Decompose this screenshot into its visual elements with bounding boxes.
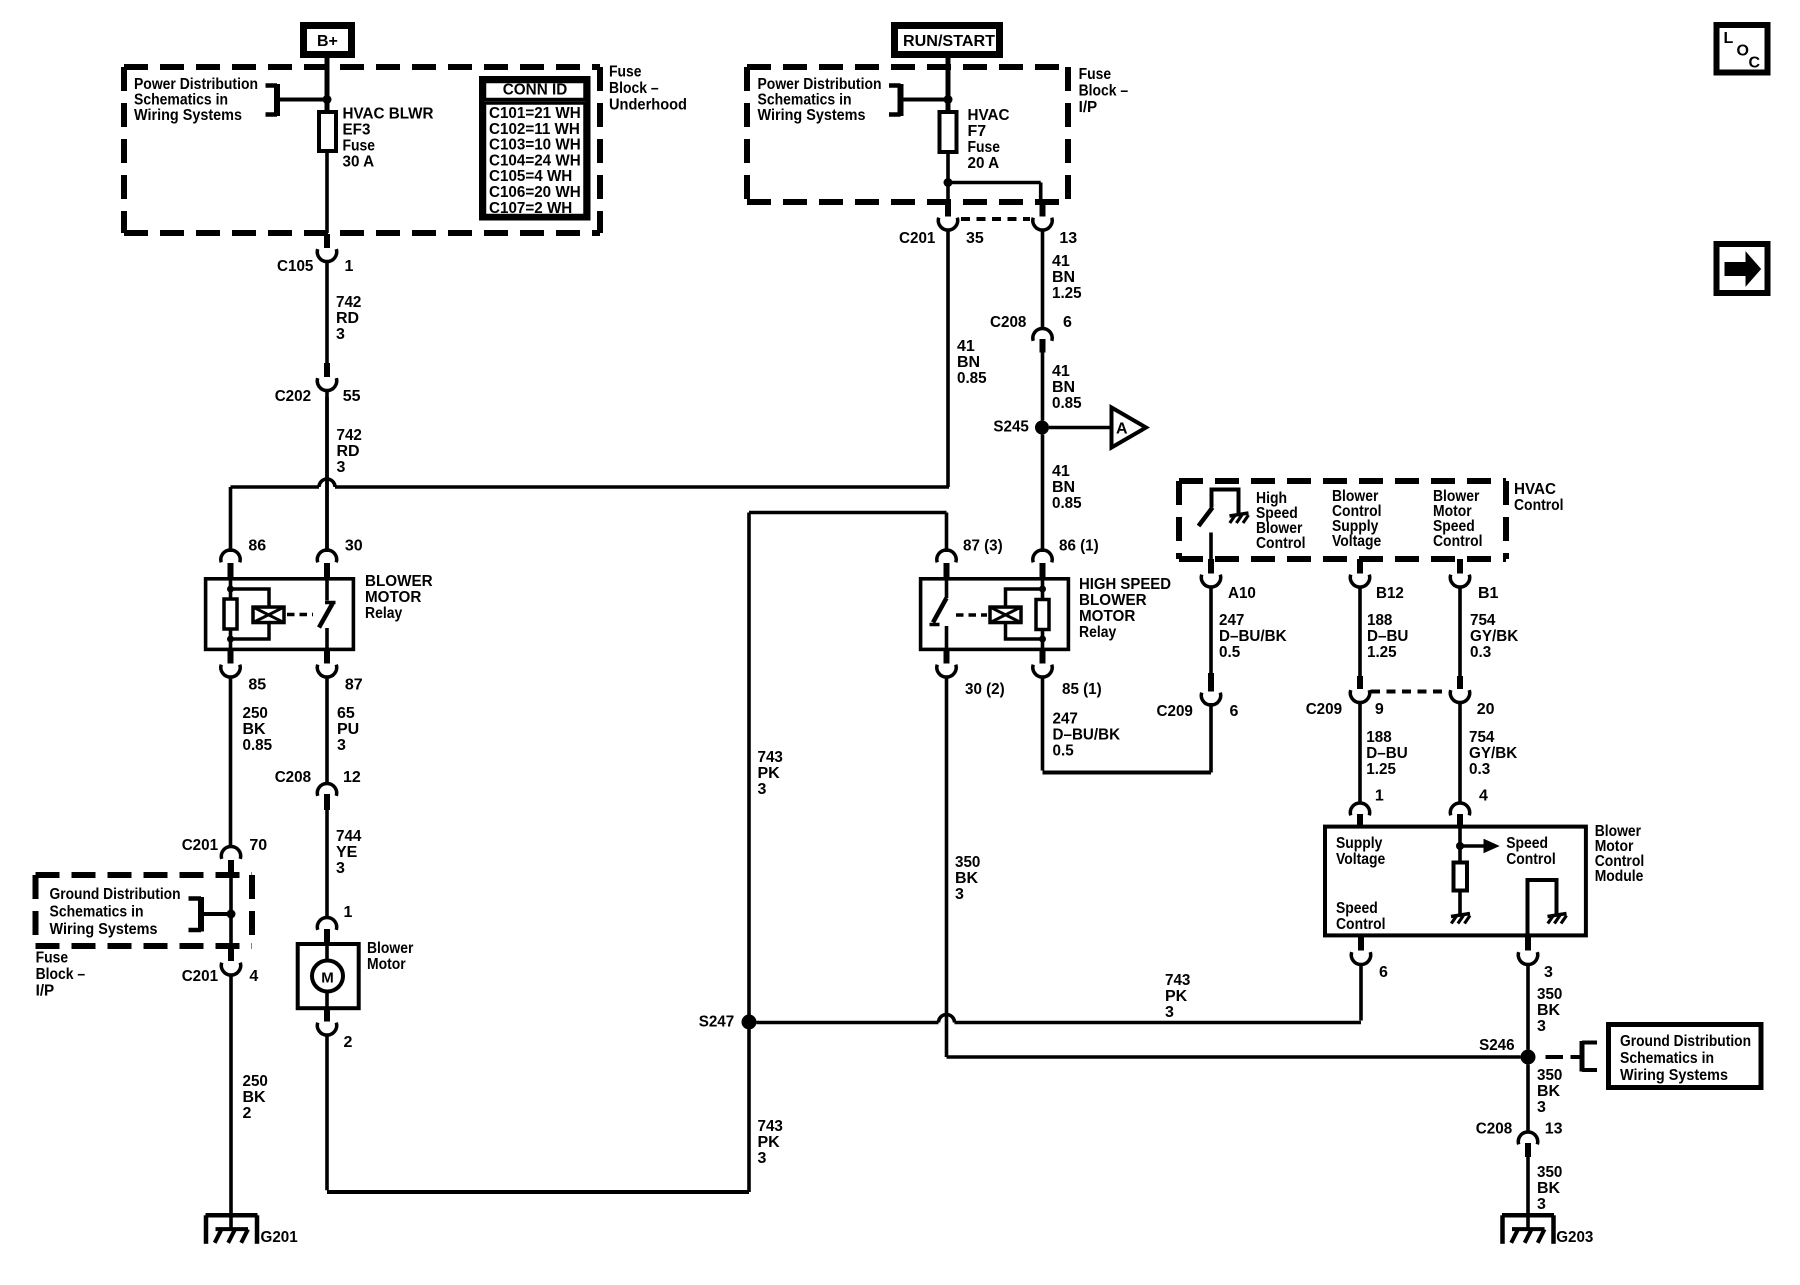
bracket to ground wire xyxy=(198,897,204,932)
wire S246 down xyxy=(1526,1065,1530,1132)
wire A10 to C209-6 xyxy=(1209,588,1213,674)
svg-text:C201: C201 xyxy=(899,230,935,247)
module arrow to Speed Control xyxy=(1460,844,1484,848)
svg-text:C208: C208 xyxy=(990,314,1026,331)
wire 41 BN 0.85 above S245 xyxy=(1041,353,1045,421)
splice S245 xyxy=(1035,421,1049,435)
svg-text:4: 4 xyxy=(249,968,258,985)
svg-text:C209: C209 xyxy=(1157,703,1193,720)
svg-text:CONN ID: CONN ID xyxy=(503,82,568,99)
LOC box xyxy=(1717,25,1768,73)
svg-text:S246: S246 xyxy=(1479,1037,1515,1054)
svg-text:C105: C105 xyxy=(277,258,313,275)
node branch dot below fuse xyxy=(944,178,953,187)
svg-text:C209: C209 xyxy=(1306,701,1342,718)
fuse F7 HVAC 20A xyxy=(940,112,957,152)
svg-text:C202: C202 xyxy=(275,388,311,405)
svg-text:6: 6 xyxy=(1379,964,1388,981)
high speed relay coil branch wires xyxy=(1041,577,1045,600)
ground G201 xyxy=(206,1213,258,1218)
svg-text:1: 1 xyxy=(345,258,354,275)
svg-text:S245: S245 xyxy=(993,419,1029,436)
svg-text:6: 6 xyxy=(1230,703,1239,720)
svg-text:85: 85 xyxy=(248,677,266,694)
wire 754 GY/BK 0.3 to module pin 4 xyxy=(1458,703,1462,803)
ground G203 xyxy=(1502,1213,1554,1218)
connector C209 pin 9 xyxy=(1357,676,1363,689)
wire 65 PU 3 xyxy=(325,678,329,783)
wire 742 RD 3 upper xyxy=(325,262,329,363)
splice S246 xyxy=(1521,1050,1536,1065)
svg-text:55: 55 xyxy=(343,388,361,405)
fuse EF3 HVAC BLWR 30A xyxy=(319,112,336,151)
wire 350 BK 3 to G203 xyxy=(1526,1157,1530,1229)
connector module pin 3 xyxy=(1525,935,1531,951)
dashed connector line C201 xyxy=(961,217,1030,221)
svg-text:13: 13 xyxy=(1059,230,1077,247)
svg-text:BlowerMotorControlModule: BlowerMotorControlModule xyxy=(1595,823,1645,885)
connector B12 xyxy=(1357,559,1363,574)
connector A10 xyxy=(1208,559,1214,574)
wire B1 to C209-20 xyxy=(1458,588,1462,677)
wire 744 YE 3 xyxy=(325,810,329,917)
connector relay pin 85 xyxy=(228,651,234,664)
wire B+ box to fuse xyxy=(325,58,330,112)
svg-text:O: O xyxy=(1737,43,1749,60)
svg-text:G203: G203 xyxy=(1556,1229,1593,1246)
connector relay pin 86 xyxy=(221,550,240,562)
bracket to Ground Distribution box xyxy=(1580,1041,1585,1072)
connector relay pin 87 xyxy=(324,651,330,664)
wire 250 BK 2 xyxy=(229,976,233,1230)
CONN ID table xyxy=(482,79,589,219)
svg-text:C: C xyxy=(1749,55,1761,72)
wire 41 BN 1.25 xyxy=(1041,230,1045,327)
svg-text:6: 6 xyxy=(1063,314,1072,331)
connector C208 pin 12 xyxy=(317,783,336,795)
relay switch xyxy=(325,577,329,601)
connector C201 pin 13 xyxy=(1040,204,1046,217)
svg-text:A10: A10 xyxy=(1228,585,1256,602)
wire module pin 6 to S247 with hop xyxy=(1359,965,1363,1021)
wire 743 PK 3 vertical to S247 xyxy=(747,513,751,1016)
wire 41 BN 0.85 via C201-35 down xyxy=(946,230,950,487)
svg-text:G201: G201 xyxy=(261,1229,298,1246)
relay coil branch wires xyxy=(229,577,233,599)
svg-text:87 (3): 87 (3) xyxy=(963,538,1003,555)
svg-text:87: 87 xyxy=(345,677,363,694)
svg-text:86 (1): 86 (1) xyxy=(1059,538,1099,555)
module pin3 internal bracket to ground xyxy=(1528,880,1557,935)
svg-text:B1: B1 xyxy=(1478,585,1499,602)
dashed connector line C209 xyxy=(1371,690,1447,694)
module pin4 internal wire xyxy=(1458,827,1462,863)
svg-text:1: 1 xyxy=(1375,788,1384,805)
connector C208 pin 13 xyxy=(1518,1132,1537,1144)
wire 350 BK 3 from 30 (2) xyxy=(945,678,949,1058)
connector relay pin 85 (1) xyxy=(1040,651,1046,664)
connector C208 pin 6 xyxy=(1033,328,1052,340)
hvac switch blade xyxy=(1199,508,1213,527)
connector module pin 4 xyxy=(1450,803,1469,815)
connector relay pin 30 xyxy=(325,397,329,552)
svg-text:86: 86 xyxy=(248,538,266,555)
svg-text:1: 1 xyxy=(344,904,353,921)
wire 188 D-BU 1.25 to module pin 1 xyxy=(1358,703,1362,803)
svg-text:30 (2): 30 (2) xyxy=(965,681,1005,698)
wire fuse to C201 junction xyxy=(946,152,950,204)
dashed box Fuse Block - Underhood xyxy=(124,64,600,70)
high speed relay coil-switch dashed link xyxy=(956,613,987,617)
relay BLOWER MOTOR box xyxy=(206,579,354,650)
connector blower motor pin 2 xyxy=(324,1008,330,1022)
svg-text:C201: C201 xyxy=(182,837,218,854)
relay coil-switch dashed link xyxy=(287,613,313,617)
blower motor symbol M xyxy=(325,944,329,961)
relay coil symbol xyxy=(253,607,284,623)
power symbol RUN/START box xyxy=(895,26,1000,55)
node junction dot on B+ wire xyxy=(323,95,332,104)
wire 250 BK 0.85 xyxy=(229,678,233,846)
wire module pin 3 to S246 xyxy=(1526,965,1530,1050)
connector B1 xyxy=(1457,559,1463,574)
svg-text:85 (1): 85 (1) xyxy=(1062,681,1102,698)
svg-text:30: 30 xyxy=(345,538,363,555)
connector relay pin 87 (3) xyxy=(937,550,956,562)
svg-text:C101=21 WHC102=11 WHC103=10 WH: C101=21 WHC102=11 WHC103=10 WHC104=24 WH… xyxy=(489,105,581,217)
wire 30(2) run to S246 xyxy=(947,1055,1521,1059)
connector C105 pin 1 xyxy=(324,234,330,248)
forward arrow box xyxy=(1717,244,1768,293)
svg-text:A: A xyxy=(1116,421,1128,438)
dashed box Ground Distribution (left) xyxy=(36,872,253,878)
off-page arrow A triangle xyxy=(1112,408,1147,448)
wire corner down to relay 86 xyxy=(229,487,233,552)
svg-text:13: 13 xyxy=(1545,1121,1563,1138)
connector C201 pin 70 xyxy=(221,846,240,858)
hvac switch to ground xyxy=(1212,490,1239,514)
svg-text:70: 70 xyxy=(249,837,267,854)
wire through dashed box xyxy=(229,875,233,948)
wire branch to pin 13 xyxy=(948,181,1041,185)
svg-text:2: 2 xyxy=(344,1034,353,1051)
wire 41 BN 0.85 below S245 xyxy=(1041,435,1045,553)
svg-text:B12: B12 xyxy=(1376,585,1404,602)
svg-text:RUN/START: RUN/START xyxy=(903,33,995,50)
bracket to RUN/START wire xyxy=(898,84,904,116)
svg-text:SupplyVoltage: SupplyVoltage xyxy=(1336,835,1385,868)
hvac switch pole xyxy=(1209,533,1213,560)
connector C209 pin 20 xyxy=(1457,676,1463,689)
wire fuse to fuse block edge xyxy=(325,151,329,233)
module resistor ground wire xyxy=(1458,891,1462,915)
dashed box Fuse Block - I/P xyxy=(747,64,1068,70)
wire S245 to arrow A xyxy=(1049,426,1112,430)
connector C202 pin 55 xyxy=(324,363,330,377)
connector C201 pin 35 xyxy=(945,204,951,217)
connector module pin 1 xyxy=(1350,803,1369,815)
connector blower motor pin 1 xyxy=(317,917,336,929)
connector C201 pin 4 xyxy=(228,948,234,962)
connector C209 pin 6 xyxy=(1201,693,1220,705)
module Blower Motor Control Module box xyxy=(1325,827,1586,936)
relay HIGH SPEED BLOWER MOTOR box xyxy=(921,579,1069,650)
svg-text:BlowerControlSupplyVoltage: BlowerControlSupplyVoltage xyxy=(1332,488,1382,550)
svg-text:S247: S247 xyxy=(699,1014,735,1031)
wire horizontal run y487 with hop over B+ wire xyxy=(231,485,320,489)
relay coil resistor xyxy=(224,599,237,629)
node junction dot in dashed box xyxy=(227,910,236,919)
high speed relay resistor xyxy=(1036,600,1049,630)
dashed box HVAC Control xyxy=(1179,478,1506,484)
wire 743 PK 3 top corner from 87(3) xyxy=(749,511,947,515)
dashes S246 to bracket xyxy=(1546,1055,1564,1059)
svg-text:12: 12 xyxy=(343,769,361,786)
wire 247 D-BU/BK 0.5 from 85 (1) xyxy=(1041,678,1045,771)
wire B12 to C209-9 xyxy=(1358,588,1362,677)
wire blower motor to S247 xyxy=(325,1036,329,1191)
connector relay pin 86 (1) xyxy=(1033,550,1052,562)
svg-text:20: 20 xyxy=(1477,701,1495,718)
svg-text:35: 35 xyxy=(966,230,984,247)
blower motor box xyxy=(298,944,359,1008)
wire RUN/START box to fuse xyxy=(946,58,951,112)
svg-text:4: 4 xyxy=(1479,788,1488,805)
high speed relay switch xyxy=(945,577,949,598)
svg-text:L: L xyxy=(1724,30,1734,47)
power symbol B+ box xyxy=(304,26,352,55)
high speed relay coil symbol xyxy=(990,607,1021,623)
node junction dot on RUN/START wire xyxy=(944,95,953,104)
svg-text:B+: B+ xyxy=(317,33,338,50)
wire 742 RD 3 lower xyxy=(325,391,329,552)
module resistor xyxy=(1454,863,1468,891)
splice S247 xyxy=(742,1015,757,1030)
svg-text:C201: C201 xyxy=(182,968,218,985)
connector module pin 6 xyxy=(1358,935,1364,951)
box Ground Distribution Schematics in Wiring Systems (right) xyxy=(1609,1025,1762,1088)
svg-text:9: 9 xyxy=(1375,701,1384,718)
connector relay pin 30 (2) xyxy=(944,651,950,664)
svg-text:C208: C208 xyxy=(275,769,311,786)
bracket to B+ wire xyxy=(274,84,280,116)
svg-text:3: 3 xyxy=(1544,964,1553,981)
svg-text:M: M xyxy=(321,970,334,987)
svg-text:C208: C208 xyxy=(1476,1121,1512,1138)
